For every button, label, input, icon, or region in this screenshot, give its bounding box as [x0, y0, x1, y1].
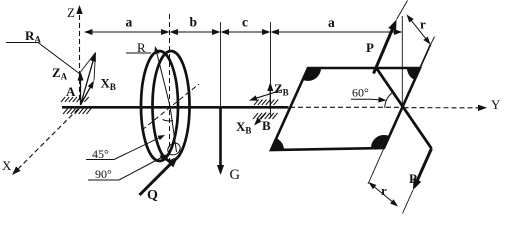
svg-text:a: a: [328, 15, 335, 30]
tick at top r: [428, 37, 435, 51]
svg-text:a: a: [126, 15, 133, 30]
label P upper: [366, 40, 374, 55]
45-degree arc in disc: [163, 120, 174, 122]
label b: [190, 15, 198, 30]
corner fillet BL: [271, 138, 284, 150]
extension line at G point: [220, 22, 222, 106]
label a1: [126, 15, 133, 30]
plate edge extension above TR: [420, 45, 431, 69]
svg-text:X: X: [2, 158, 12, 173]
label R_A with leader: [6, 28, 80, 74]
svg-text:90°: 90°: [95, 167, 112, 181]
label r top: [420, 17, 426, 32]
crank lever line: [376, 68, 432, 149]
extension line at B: [270, 22, 272, 118]
svg-text:b: b: [190, 15, 198, 30]
svg-text:Y: Y: [491, 97, 501, 112]
label r bottom: [381, 183, 387, 198]
disc back ellipse: [141, 51, 178, 161]
svg-text:A: A: [66, 84, 76, 99]
label X_B at B: [236, 119, 251, 136]
radius to Q point: [170, 106, 177, 152]
corner fillet BR: [371, 135, 389, 148]
60deg arc: [385, 92, 393, 108]
force Q arrow: [140, 157, 179, 196]
support A lower hatch: [63, 109, 91, 115]
label A: [66, 84, 76, 99]
svg-text:r: r: [420, 17, 426, 32]
label 60deg with underline: [351, 86, 371, 100]
X axis (dashed) with arrow: [12, 109, 78, 175]
dimension r top: [407, 15, 431, 45]
label X_B at A: [101, 76, 116, 93]
radius R arrow: [154, 46, 170, 106]
dashed diameter in disc: [142, 84, 199, 130]
svg-text:Z: Z: [67, 5, 75, 20]
label Z_A: [52, 65, 68, 82]
dimension a (B to crank): [271, 29, 403, 35]
label 90deg with leader: [88, 155, 167, 182]
label R with underline: [126, 40, 151, 55]
Z axis (dashed) with arrow: [76, 5, 82, 100]
support B upper hatch: [254, 100, 278, 106]
svg-text:B: B: [262, 118, 271, 133]
svg-text:G: G: [230, 167, 241, 183]
leader from Z_B to bearing: [249, 90, 282, 101]
reaction Z_A arrow: [78, 72, 84, 106]
reaction X_B arrow at B: [254, 113, 266, 126]
Y axis dashed right with arrow: [404, 105, 488, 111]
small ellipse at Q point: [166, 141, 183, 157]
parallelogram construction lines at A: [81, 53, 96, 81]
Z label: [67, 5, 75, 20]
60deg arrow: [371, 97, 387, 103]
label B: [262, 118, 271, 133]
disc centre line (dashed): [169, 14, 171, 161]
svg-text:45°: 45°: [92, 147, 109, 161]
label Q: [147, 188, 158, 203]
extension line at crank: [401, 16, 403, 107]
svg-text:P: P: [366, 40, 374, 55]
disc front ellipse: [153, 51, 190, 161]
P upper line of action (thin): [397, 1, 408, 20]
Y label: [491, 97, 501, 112]
force P upper arrow: [374, 20, 397, 74]
shaft: [62, 106, 289, 109]
support B lower hatch: [253, 113, 278, 119]
Y axis dashed through plate: [290, 106, 404, 108]
corner fillet TR: [407, 68, 420, 80]
label 45deg with leader: [86, 135, 165, 161]
dimension r bottom: [369, 182, 399, 207]
corner fillet TL: [303, 68, 321, 81]
X label: [2, 158, 12, 173]
dimension b (disc to G): [170, 29, 221, 35]
label a2: [328, 15, 335, 30]
label Z_B: [274, 81, 289, 98]
svg-text:P: P: [409, 171, 417, 186]
reaction X_B arrow at A: [81, 81, 95, 106]
dimension c (G to B): [221, 29, 271, 35]
plate edge extension below BR: [368, 148, 384, 184]
svg-text:r: r: [381, 183, 387, 198]
label c: [242, 15, 248, 30]
svg-text:60°: 60°: [352, 86, 369, 100]
label P lower: [409, 171, 417, 186]
dimension a (A to disc): [84, 29, 170, 35]
plate (parallelogram) outline: [271, 68, 420, 150]
svg-text:c: c: [242, 15, 248, 30]
svg-text:Q: Q: [147, 188, 158, 203]
force P lower arrow: [413, 149, 432, 191]
reaction Z_B arrow: [267, 82, 273, 109]
P lower line of action (thin): [403, 190, 414, 214]
force G arrow: [217, 107, 224, 175]
support A upper hatch: [61, 97, 89, 102]
reaction R_A arrow: [81, 53, 96, 106]
label G: [230, 167, 241, 183]
